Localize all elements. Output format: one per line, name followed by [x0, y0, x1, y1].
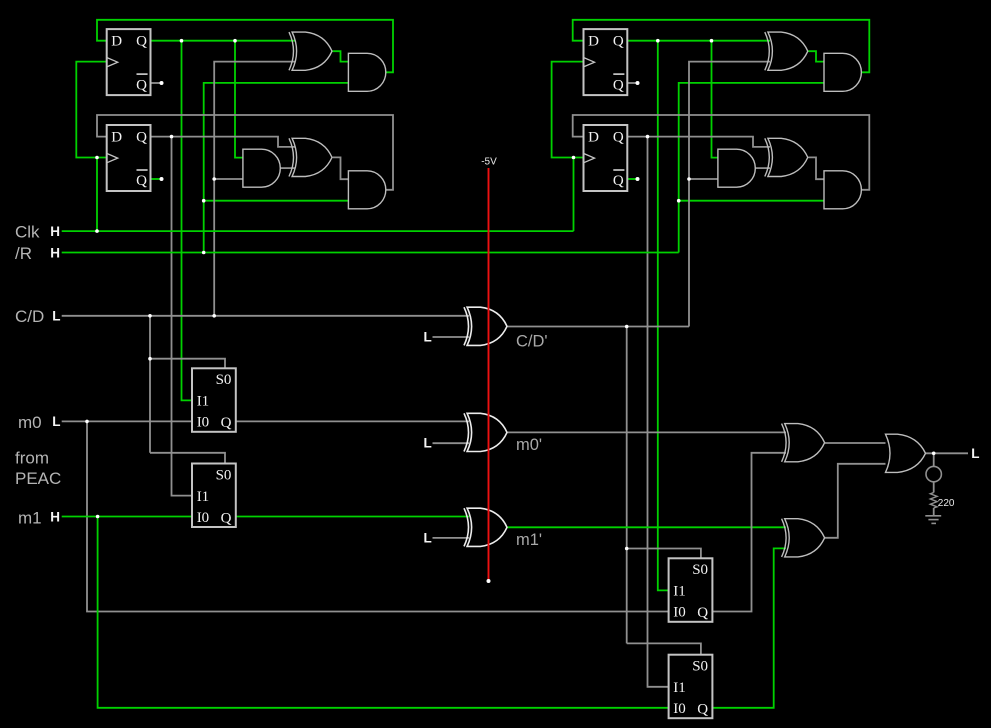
- junction C/D' branch: [687, 177, 691, 181]
- wire m1 line to MUX2 I0: [62, 516, 192, 518]
- wire DFF1 Q output rail: [151, 40, 296, 42]
- wire C/D' riser x689 to XOR-R1 lower input: [689, 62, 770, 327]
- wire OR output to pin L: [925, 452, 968, 454]
- junction Q2 to MUX2: [170, 135, 174, 139]
- xor gate X8 (final stage): [782, 424, 825, 462]
- and gate A2 (left row2): [243, 149, 280, 187]
- junction Q3 to AND5: [710, 39, 714, 43]
- wire C/D line: [62, 315, 469, 317]
- D flip-flop FF2 (left): [107, 125, 151, 191]
- D flip-flop FF4 (right): [584, 125, 628, 191]
- pin dot FF1 Qbar: [160, 81, 164, 85]
- wire DFF3 Q output rail: [627, 40, 770, 42]
- wire m0 branch down to MUX3 I0: [87, 421, 669, 611]
- junction Q4 to MUX4: [646, 135, 650, 139]
- junction /R line: [202, 251, 206, 255]
- wire C/D branch to AND2L lower input: [214, 178, 243, 180]
- and gate A5 (right row2): [718, 149, 755, 187]
- svg-text:Q: Q: [613, 129, 624, 145]
- multiplexer M3 (C/D' select): [669, 558, 713, 622]
- wire MUX3 Q feedback to XOR3 lower input: [712, 453, 786, 612]
- svg-text:m0: m0: [18, 413, 42, 432]
- svg-text:Q: Q: [136, 129, 147, 145]
- svg-text:-5V: -5V: [481, 157, 497, 168]
- wire output node down to lamp: [933, 453, 935, 466]
- svg-text:Q: Q: [136, 173, 147, 189]
- svg-text:C/D': C/D': [516, 332, 548, 350]
- junction output node: [932, 452, 936, 456]
- and gate A3 (left row2): [348, 171, 385, 209]
- svg-text:I1: I1: [673, 584, 686, 600]
- svg-text:from: from: [15, 448, 49, 467]
- junction clk DFF4: [572, 156, 576, 160]
- svg-text:H: H: [50, 509, 60, 524]
- wire DFF4 Q to XOR-R2 upper input: [627, 137, 770, 147]
- svg-text:Q: Q: [136, 33, 147, 49]
- wire DFF2 feedback: AND2R out to rail to DFF2 D: [97, 115, 393, 190]
- junction MUX3 select: [625, 547, 629, 551]
- wire DFF3 clock loop: [552, 62, 584, 158]
- junction C/D riser: [212, 314, 216, 318]
- and gate A6 (right row2): [824, 171, 861, 209]
- pin dot FF4 Qbar: [636, 177, 640, 181]
- wire DFF3 Q to AND-R2L upper input riser: [712, 41, 718, 158]
- svg-text:S0: S0: [692, 562, 708, 578]
- svg-text:L: L: [52, 309, 60, 324]
- and gate A4 (right row1): [824, 53, 861, 91]
- svg-text:S0: S0: [692, 659, 708, 675]
- wire DFF2 Q to XOR2 upper input: [151, 137, 296, 147]
- svg-text:I0: I0: [197, 415, 210, 431]
- svg-text:Clk: Clk: [15, 222, 40, 241]
- wire L stub of XOR-m1p: [433, 537, 470, 539]
- wire AND2L out to XOR2 lower input: [280, 167, 295, 169]
- svg-text:Q: Q: [613, 173, 624, 189]
- wire DFF1 Q to MUX1 I1 riser: [182, 41, 193, 401]
- wire XOR2 out jog to AND2R upper input: [333, 157, 349, 179]
- wire C/D riser x214 to XOR1 lower input: [214, 62, 295, 316]
- pin dot FF3 Qbar: [636, 81, 640, 85]
- wire MUX4 Q feedback to XOR4 lower input: [712, 548, 786, 707]
- wire clock riser to Clk line: [96, 158, 98, 232]
- wire /R branch to AND-R2R lower input: [679, 200, 824, 202]
- wire DFF4 feedback: AND-R2R out to rail to DFF4 D: [573, 115, 870, 190]
- wire MUX1 Q to XOR-m0p input: [236, 420, 469, 422]
- svg-text:I1: I1: [197, 489, 210, 505]
- wire DFF1 Q to AND2L upper input riser: [235, 41, 243, 158]
- D flip-flop FF1 (top-left): [107, 29, 151, 95]
- wire lamp to resistor: [933, 482, 935, 493]
- junction MUX1 select: [148, 357, 152, 361]
- wire XOR1 out jog to AND1 input: [333, 51, 349, 61]
- wire XOR-R1 out jog to AND-R1 input: [808, 51, 824, 61]
- wire DFF2 Q to MUX2 I1 riser: [172, 137, 193, 496]
- svg-text:Q: Q: [221, 415, 232, 431]
- junction Q3 to MUX3: [656, 39, 660, 43]
- wire MUX2 Q to XOR-m1p input: [236, 516, 469, 518]
- svg-text:D: D: [588, 33, 599, 49]
- power rail -5V red line: [488, 168, 490, 581]
- junction Clk/riser: [95, 229, 99, 233]
- wire DFF3 Q to MUX3 I1 riser: [658, 41, 669, 591]
- multiplexer M2 (C/D select): [192, 464, 236, 528]
- junction /R branch upper: [202, 199, 206, 203]
- lamp circle: [926, 466, 941, 481]
- svg-text:Q: Q: [697, 702, 708, 718]
- svg-text:Q: Q: [221, 510, 232, 526]
- wire C/D' output to risers: [508, 326, 689, 328]
- svg-text:D: D: [111, 129, 122, 145]
- wire Clk line: [62, 230, 574, 232]
- and gate A1 (left row1): [348, 53, 385, 91]
- svg-text:C/D: C/D: [15, 307, 44, 326]
- wire /R riser x679 and AND-R1 lower feed: [679, 83, 824, 253]
- wire m1 branch down to MUX4 I0: [98, 517, 669, 708]
- wire /R branch riser x204 with AND row1/row2 feeds: [204, 83, 349, 253]
- multiplexer M4 (C/D' select): [669, 655, 713, 719]
- wire DFF1 clock loop: [76, 62, 106, 158]
- svg-text:220: 220: [938, 498, 955, 509]
- junction /R right branch: [677, 199, 681, 203]
- wire XOR3 out to OR input: [825, 442, 886, 444]
- junction m1 branch: [96, 515, 100, 519]
- svg-text:I1: I1: [673, 680, 686, 696]
- svg-text:H: H: [50, 224, 60, 239]
- wire AND-R2L out to XOR-R2 lower input: [755, 167, 770, 169]
- svg-text:D: D: [111, 33, 122, 49]
- junction C/D branch: [212, 177, 216, 181]
- xor gate X6 output m0': [464, 413, 507, 451]
- pin dot at -5V rail bottom: [487, 579, 491, 583]
- svg-text:S0: S0: [216, 372, 232, 388]
- resistor R 220 zigzag: [930, 493, 937, 509]
- wire resistor to ground: [933, 508, 935, 516]
- wire DFF4 Q to MUX4 I1 riser: [648, 137, 669, 687]
- svg-text:I0: I0: [197, 510, 210, 526]
- junction C/D' riser: [625, 325, 629, 329]
- svg-text:S0: S0: [216, 467, 232, 483]
- wire DFF1 Qbar stub: [151, 82, 160, 84]
- junction Q1 to AND2: [233, 39, 237, 43]
- svg-text:Q: Q: [697, 605, 708, 621]
- wire MUX2 select stub: [150, 453, 225, 464]
- junction Q1 to MUX1: [180, 39, 184, 43]
- xor gate X1 (left row1): [289, 32, 332, 70]
- svg-text:m1': m1': [516, 531, 542, 549]
- svg-text:L: L: [424, 530, 432, 545]
- xor gate X3 (right row1): [765, 32, 808, 70]
- svg-text:I1: I1: [197, 394, 210, 410]
- xor gate X7 output m1': [464, 508, 507, 546]
- svg-text:PEAC: PEAC: [15, 469, 61, 488]
- xor gate X4 (right row2): [765, 138, 808, 176]
- wire L stub of XOR-CDp: [433, 336, 470, 338]
- wire XOR4 out jog up to OR input: [825, 464, 886, 538]
- wire /R line: [62, 252, 679, 254]
- svg-text:H: H: [50, 245, 60, 260]
- svg-text:D: D: [588, 129, 599, 145]
- wire clock riser right: [573, 158, 575, 232]
- wire DFF1 feedback: AND1 out to top rail to DFF1 D: [97, 20, 393, 73]
- svg-text:L: L: [424, 436, 432, 451]
- svg-text:m0': m0': [516, 436, 542, 454]
- svg-text:Q: Q: [613, 77, 624, 93]
- svg-text:Q: Q: [136, 77, 147, 93]
- wire m0' output to XOR3 upper input: [508, 431, 786, 433]
- wire C/D' branch to AND-R2L lower input: [689, 178, 718, 180]
- svg-text:Q: Q: [613, 33, 624, 49]
- junction m0 branch: [85, 420, 89, 424]
- wire m1' output to XOR4 upper input: [508, 526, 786, 528]
- wire DFF3 Qbar stub: [627, 82, 636, 84]
- svg-text:I0: I0: [673, 605, 686, 621]
- svg-text:L: L: [971, 446, 979, 461]
- multiplexer M1 (C/D select): [192, 368, 236, 432]
- wire C/D' riser down to MUX3/MUX4 selects: [626, 327, 628, 644]
- svg-text:/R: /R: [15, 244, 32, 263]
- wire /R to AND2R lower input: [204, 200, 349, 202]
- wire m0 line to MUX1 I0: [62, 420, 192, 422]
- or gate O1 (output): [886, 434, 926, 472]
- wire MUX1 select from C/D riser x150: [149, 316, 151, 453]
- svg-text:I0: I0: [673, 701, 686, 717]
- junction C/D to MUX selects: [148, 314, 152, 318]
- xor gate X9 (final stage): [782, 519, 825, 557]
- svg-text:m1: m1: [18, 508, 42, 527]
- wire L stub of XOR-m0p: [433, 442, 470, 444]
- xor gate X2 (left row2): [289, 138, 332, 176]
- ground symbol: [925, 516, 941, 524]
- wire DFF4 Qbar stub: [627, 178, 636, 180]
- svg-text:L: L: [424, 330, 432, 345]
- D flip-flop FF3 (top-right): [584, 29, 628, 95]
- wire DFF3 feedback: AND3 out to top rail to DFF3 D: [573, 20, 870, 73]
- xor gate X5 output C/D': [464, 307, 507, 345]
- pin dot FF2 Qbar: [160, 177, 164, 181]
- svg-text:L: L: [52, 414, 60, 429]
- wire XOR-R2 out jog to AND-R2R upper input: [808, 157, 824, 179]
- junction clk DFF2: [95, 156, 99, 160]
- wire DFF2 Qbar stub: [151, 178, 160, 180]
